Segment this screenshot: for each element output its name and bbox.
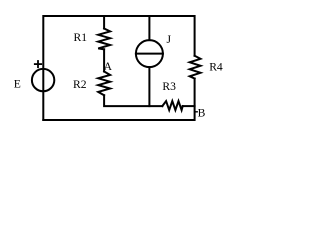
- svg-text:R4: R4: [209, 61, 223, 74]
- svg-text:E: E: [14, 77, 21, 90]
- svg-text:R1: R1: [74, 31, 88, 44]
- svg-text:J: J: [167, 33, 172, 46]
- svg-text:R3: R3: [162, 80, 176, 93]
- svg-text:R2: R2: [73, 78, 87, 91]
- svg-text:B: B: [198, 107, 206, 120]
- svg-text:A: A: [104, 60, 113, 73]
